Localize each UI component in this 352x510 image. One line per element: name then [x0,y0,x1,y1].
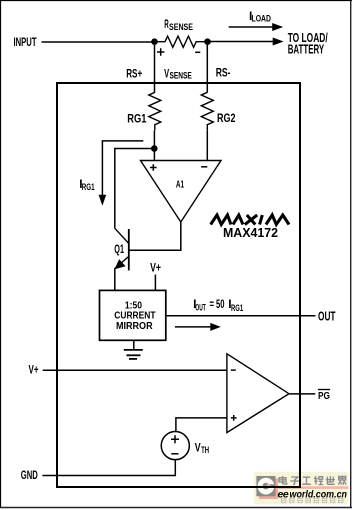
svg-text:GND: GND [21,470,38,482]
plus sign sense [157,48,164,55]
wire VTH to GND line [174,460,176,476]
svg-text:MAX4172: MAX4172 [223,226,278,240]
op-amp A1 [141,161,222,223]
arrow IRG1 annotation [102,141,143,196]
wire RS- down [206,42,208,93]
wire V+ to comparator minus input [43,369,227,371]
svg-text:SENSE: SENSE [169,22,193,32]
watermark title underline [277,486,349,489]
wire RS+ down [154,42,156,93]
wire RG1 to node and A1 plus input [153,130,155,160]
watermark logo square [256,476,275,496]
wire RS- node to load [208,41,274,43]
node junction dot RG1 [151,145,158,152]
wire A1 output to Q1 base [130,222,181,250]
comparator minus input sign [231,369,236,371]
watermark eeworld background [254,472,349,505]
comparator PG [227,354,289,433]
svg-text:LOAD: LOAD [252,14,272,24]
wire node to Q1 collector [115,149,155,229]
resistor RSENSE [155,36,208,47]
watermark logo C ring [258,478,275,495]
svg-text:RS-: RS- [216,68,231,80]
watermark title 电子工程世界 [279,476,346,485]
watermark slogan [282,499,343,503]
svg-text:PG: PG [318,391,330,402]
ground symbol [124,340,143,359]
current mirror box [100,290,166,340]
wire RG2 to A1 minus input [206,130,208,160]
VTH plus sign [171,435,179,443]
svg-text:V+: V+ [150,261,161,275]
svg-text:INPUT: INPUT [14,37,37,49]
wire V+ to mirror [154,275,156,291]
svg-text:RG1: RG1 [82,182,95,192]
svg-text:TH: TH [201,445,209,455]
svg-text:V+: V+ [29,363,39,377]
wire GND [42,475,176,477]
arrowhead to load [273,38,284,46]
transistor Q1 [114,228,128,270]
svg-text:SENSE: SENSE [170,71,192,81]
node RS+ junction dot [151,38,158,45]
resistor RG2 [201,92,213,130]
MAXIM logo [211,215,289,225]
svg-text:OUT: OUT [195,302,206,312]
wire Q1 emitter to current mirror [114,269,116,291]
arrow ILOAD annotation [229,26,273,28]
svg-text:V: V [164,66,169,80]
VTH minus sign [171,453,178,455]
svg-text:Q1: Q1 [114,244,124,256]
voltage source VTH [161,432,189,460]
svg-text:BATTERY: BATTERY [288,43,325,57]
wire mirror output to OUT [166,315,316,317]
resistor RG1 [149,92,161,130]
node RS- junction dot [204,38,211,45]
svg-text:V: V [195,441,201,455]
A1 plus input sign [150,164,157,171]
svg-text:A1: A1 [176,180,184,191]
svg-text:RG1: RG1 [127,114,147,126]
arrow IOUT annotation [175,326,212,328]
IC boundary box MAX4172 [57,83,300,487]
svg-text:RS+: RS+ [126,69,142,81]
svg-text:RG2: RG2 [217,113,236,125]
A1 minus input sign [201,166,207,168]
wire input to RS+ node [42,41,155,43]
svg-text:MIRROR: MIRROR [116,320,153,332]
wire comparator plus input to VTH [176,418,227,432]
svg-text:RG1: RG1 [231,303,243,313]
wire comparator output to PG [289,393,315,395]
svg-text:OUT: OUT [318,309,336,323]
minus sign sense [195,51,200,53]
watermark logo dot [266,484,270,488]
comparator plus input sign [231,415,237,421]
watermark logo shadow [259,479,278,500]
svg-text:= 50: = 50 [210,297,225,311]
